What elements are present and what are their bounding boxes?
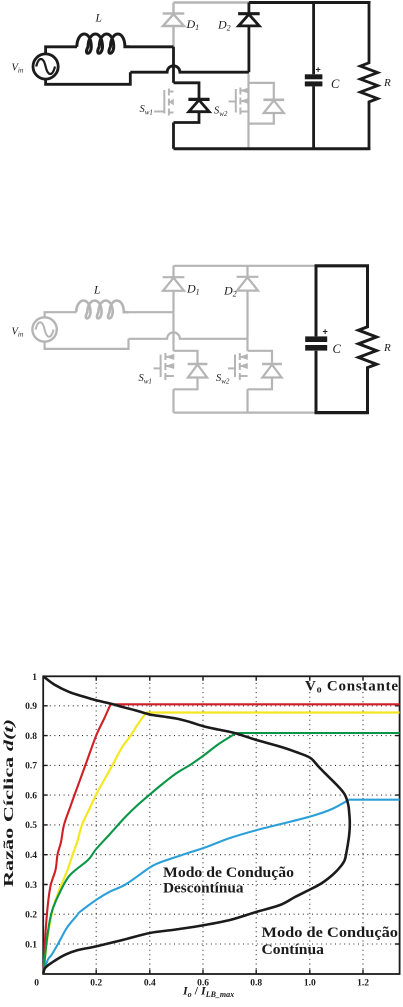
diode D2 (gray) circuit 2 (237, 266, 259, 339)
svg-text:Modo de Condução: Modo de Condução (163, 865, 294, 881)
wire: inductor to D1/Sw1 branch (circuit 2) (129, 311, 174, 313)
wire: Vin bottom lead with step (circuit 2) (45, 339, 129, 349)
svg-text:0.4: 0.4 (144, 979, 156, 989)
AC source Vin (circuit 2, gray) (32, 317, 56, 341)
diode D2 (black, conducting) branch (238, 3, 260, 73)
chart: DCM curve red (Vd/Vo case 1) (44, 705, 111, 975)
transistor Sw1 (gray MOSFET, circuit 2) (154, 353, 174, 380)
svg-text:1.2: 1.2 (357, 979, 369, 989)
capacitor C branch wires (312, 3, 315, 149)
wire: top rail black output loop (circuit 2) (315, 264, 370, 267)
wire: Vin top lead to inductor (46, 47, 77, 55)
wire: branch vertical through hop (circuit 2) (172, 312, 174, 351)
svg-text:Razão Cíclica d(t): Razão Cíclica d(t) (1, 719, 16, 887)
diode (gray, antiparallel of Sw2) in rectangle loop (249, 83, 285, 124)
inductor L (77, 34, 130, 53)
wire: top rail gray segment (D1 to D2) (174, 1, 249, 4)
svg-text:L: L (95, 13, 102, 25)
diode (gray, antiparallel of Sw1, circuit 2) in rectangle loop (174, 351, 208, 390)
transistor Sw2 cell (gray, off): branch wire (247, 74, 249, 149)
svg-text:0.6: 0.6 (25, 791, 37, 801)
chart: DCM curve yellow (case 2) (44, 713, 147, 974)
chart: DCM curve blue (case 4) (43, 800, 348, 974)
svg-text:0.4: 0.4 (25, 851, 37, 861)
wire: top rail black (D2 to R) (249, 1, 371, 4)
wire: bottom rail black output loop (circuit 2) (315, 411, 370, 414)
svg-text:0: 0 (34, 979, 39, 989)
wire: bottom rail (174, 147, 371, 150)
inductor L (circuit 2, gray) (76, 301, 128, 319)
chart: DCM curve green (case 3) (44, 734, 235, 974)
svg-text:1.0: 1.0 (304, 979, 316, 989)
wire: node A down through hop to Sw1 cell (172, 47, 175, 83)
svg-text:0.7: 0.7 (25, 762, 37, 772)
transistor Sw2 (gray MOSFET) (229, 88, 249, 115)
resistor R branch (360, 3, 377, 149)
wire: Vin top lead (circuit 2) (45, 312, 77, 317)
wire: Vin bottom lead with step (46, 72, 131, 84)
svg-text:Descontínua: Descontínua (163, 881, 244, 897)
diode (black, antiparallel of Sw1, conducting) in rectangle loop (174, 83, 210, 123)
chart: CCM horizontal yellow d=0.875 (146, 711, 400, 713)
svg-text:0.3: 0.3 (25, 881, 37, 891)
svg-text:0.2: 0.2 (25, 911, 37, 921)
wire: Sw1 cell to bottom rail (circuit 2) (172, 389, 174, 412)
svg-text:L: L (93, 285, 100, 297)
svg-text:+: + (323, 327, 328, 337)
chart: dotted grid (45, 678, 397, 972)
svg-text:C: C (333, 342, 342, 356)
wire: Sw1 cell to bottom rail (172, 123, 175, 149)
svg-text:1: 1 (32, 673, 37, 683)
transistor Sw2 (gray MOSFET, circuit 2) (228, 353, 248, 380)
wire: gray bottom rail (circuit 2) (174, 412, 316, 414)
chart: CCM horizontal blue d=0.59 (349, 799, 400, 801)
capacitor C plates (305, 74, 323, 79)
capacitor C branch wires (circuit 2, black) (315, 266, 318, 413)
diode (gray, antiparallel of Sw2, circuit 2) in rectangle loop (248, 351, 282, 390)
svg-text:0.5: 0.5 (25, 821, 37, 831)
transistor Sw1 (gray MOSFET, off) (154, 89, 173, 116)
wire: return rail y=72 with hop over Sw1 branch, to D2 anode (130, 66, 249, 72)
svg-text:0.8: 0.8 (25, 732, 37, 742)
chart: CCM/DCM boundary curve (black) (43, 677, 350, 975)
diode D1 (gray) circuit 2 (163, 266, 185, 312)
svg-text:0.8: 0.8 (250, 979, 262, 989)
svg-text:Contínua: Contínua (262, 942, 325, 958)
diode D1 (gray, off) with branch wire (163, 3, 185, 47)
svg-text:R: R (383, 342, 391, 354)
capacitor C plates (circuit 2) (305, 336, 327, 342)
svg-text:C: C (331, 77, 340, 91)
chart: axis ticks (43, 676, 399, 974)
svg-text:0.2: 0.2 (90, 979, 102, 989)
svg-text:0.9: 0.9 (25, 702, 37, 712)
svg-text:+: + (316, 65, 321, 75)
svg-text:R: R (383, 77, 391, 89)
wire: Sw2 branch vertical (circuit 2) (246, 339, 248, 413)
resistor R (circuit 2, black) (359, 266, 377, 413)
wire: top rail gray (circuit 2) (174, 265, 316, 267)
svg-text:0.1: 0.1 (25, 940, 37, 950)
wire: return rail with hop (circuit 2) (129, 332, 249, 338)
chart: CCM horizontal green d=0.81 (235, 732, 400, 734)
AC source Vin (33, 54, 58, 79)
svg-text:Modo de Condução: Modo de Condução (262, 925, 399, 941)
wire: inductor to node A (junction of D1/Sw1 branch) (130, 45, 174, 48)
chart: CCM horizontal red d=0.9 (111, 703, 400, 705)
chart: plot border box (43, 676, 399, 974)
